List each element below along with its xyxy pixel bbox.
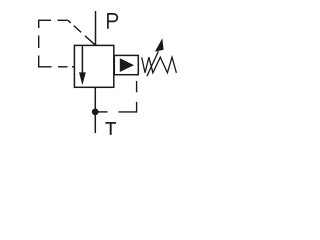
wire pilot dashed diagonal bbox=[68, 20, 71, 23]
wire P supply line bbox=[95, 11, 97, 45]
port label T bbox=[105, 122, 116, 124]
spring bbox=[142, 57, 177, 73]
node junction dot bbox=[92, 109, 99, 116]
wire pilot dashed left edge bbox=[38, 20, 40, 28]
spring adjustment arrow shaft bbox=[147, 51, 159, 76]
wire pilot dashed bottom edge bbox=[39, 66, 52, 68]
flow path arrowhead bbox=[79, 72, 86, 85]
flow path arrow shaft bbox=[81, 45, 83, 74]
pilot poppet triangle bbox=[120, 58, 134, 72]
valve body envelope bbox=[74, 45, 113, 87]
spring adjustment arrowhead bbox=[155, 38, 164, 52]
wire pilot dashed top edge bbox=[39, 19, 52, 21]
wire drain dashed horizontal bbox=[95, 111, 107, 113]
wire T return line bbox=[94, 87, 96, 133]
port label P bbox=[107, 13, 109, 29]
wire drain dashed vertical bbox=[136, 102, 138, 113]
pilot head box bbox=[114, 55, 138, 74]
